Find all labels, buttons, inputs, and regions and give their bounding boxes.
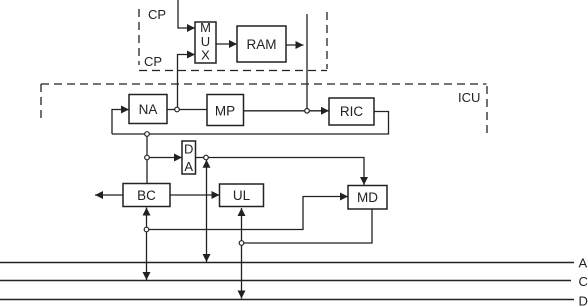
svg-text:BC: BC	[137, 188, 156, 203]
box RIC	[329, 98, 374, 125]
node BC branch	[144, 227, 149, 232]
node on loop below NA	[145, 132, 150, 137]
dashed ICU border top	[41, 83, 487, 85]
box MUX	[195, 22, 216, 63]
wire BC branch to MD input	[149, 197, 348, 230]
svg-text:C: C	[579, 274, 588, 289]
wire to DA	[149, 157, 182, 159]
wire branch to BC top	[146, 134, 148, 184]
node UL branch	[239, 241, 244, 246]
wire DA output to MD top	[196, 158, 365, 186]
svg-text:CP: CP	[148, 7, 166, 22]
wire CP clock upper into MUX	[178, 0, 195, 28]
box BC	[123, 184, 170, 207]
box MP	[207, 95, 244, 126]
box UL	[220, 184, 264, 207]
bus C	[0, 280, 571, 282]
svg-text:A: A	[579, 256, 588, 271]
svg-text:RAM: RAM	[247, 37, 277, 52]
wire RAM output	[286, 44, 304, 46]
wire BC output left	[95, 194, 123, 196]
node DA branch	[145, 155, 150, 160]
wire NA to MP	[167, 109, 207, 111]
box NA	[129, 95, 167, 124]
wire feedback loop NA-RIC	[112, 112, 389, 135]
node NA-MP junction	[175, 107, 180, 112]
svg-text:D: D	[579, 294, 588, 307]
dashed CP region bottom border	[139, 70, 327, 72]
svg-text:ICU: ICU	[458, 90, 480, 105]
wire UL bottom to bus D	[241, 208, 243, 299]
dashed CP region left border	[138, 9, 140, 65]
bus D	[0, 299, 574, 301]
svg-text:NA: NA	[139, 102, 158, 117]
wire MD bottom return	[244, 209, 372, 243]
svg-text:CP: CP	[144, 54, 162, 69]
wire BC bottom to bus C	[146, 208, 148, 281]
wire MP to RIC	[244, 110, 330, 112]
dashed ICU border left	[40, 84, 42, 120]
svg-text:MP: MP	[215, 104, 235, 119]
bus A	[0, 262, 574, 264]
svg-text:MUX: MUX	[200, 20, 211, 63]
node MP-RIC junction	[305, 109, 310, 114]
svg-text:UL: UL	[233, 188, 251, 203]
wire MUX to RAM	[216, 43, 237, 45]
wire DA node to bus A double arrow	[206, 160, 208, 262]
box MD	[348, 186, 387, 210]
node DA output	[204, 155, 209, 160]
svg-text:MD: MD	[357, 190, 378, 205]
wire BC to UL	[170, 194, 220, 196]
dashed ICU border right	[486, 86, 488, 136]
box RAM	[237, 26, 286, 62]
wire CP clock lower into MUX	[178, 55, 196, 110]
wire RAM output bus vertical	[306, 14, 308, 111]
wire NA input elbow	[112, 110, 129, 135]
box DA	[182, 141, 196, 174]
svg-text:RIC: RIC	[340, 104, 364, 119]
dashed CP region right border	[326, 12, 328, 69]
